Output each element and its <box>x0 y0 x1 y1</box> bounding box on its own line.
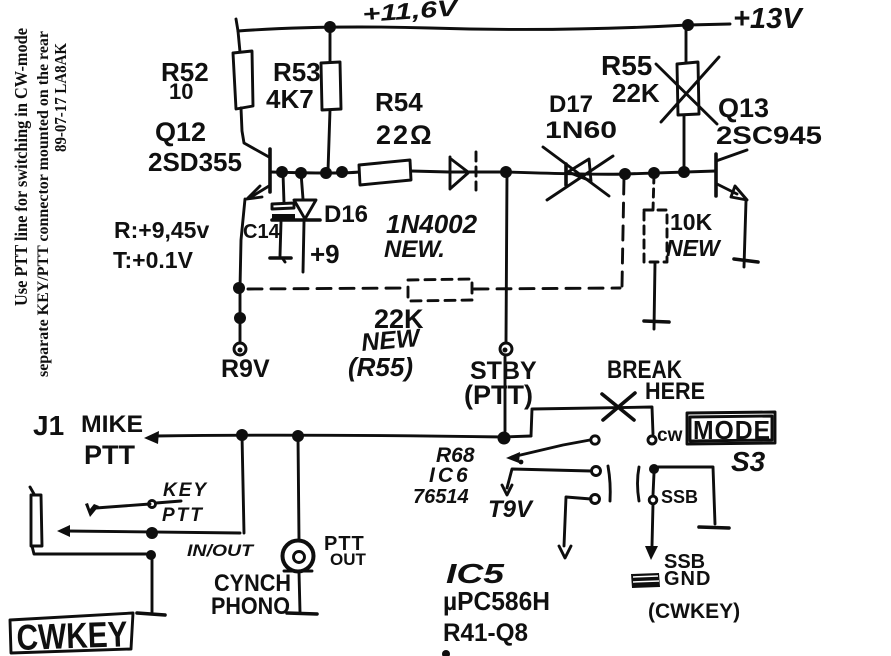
svg-text:22K: 22K <box>612 78 660 108</box>
svg-text:Use PTT line for switching in: Use PTT line for switching in CW-mode <box>11 28 31 306</box>
transistor Q12 <box>268 149 272 192</box>
svg-text:IN/OUT: IN/OUT <box>187 541 255 560</box>
svg-text:R54: R54 <box>375 87 423 117</box>
svg-text:76514: 76514 <box>413 486 469 508</box>
wire KEY line <box>96 504 150 508</box>
svg-text:+13V: +13V <box>733 3 804 35</box>
wire to right ground <box>658 467 715 524</box>
svg-text:NEW.: NEW. <box>384 236 445 263</box>
svg-text:Q12: Q12 <box>155 117 206 147</box>
arrow J1 <box>144 431 159 444</box>
svg-text:PTT: PTT <box>84 440 136 470</box>
wire contact A to arrow <box>512 440 590 457</box>
resistor 22K NEW (R55) dashed <box>408 279 472 301</box>
gnd pad SSB GND <box>631 573 660 588</box>
box MODE <box>687 412 775 444</box>
svg-text:C14: C14 <box>243 221 281 243</box>
ground CWKEY branch <box>137 613 165 615</box>
svg-text:R41-Q8: R41-Q8 <box>443 619 528 647</box>
svg-text:D16: D16 <box>324 201 368 228</box>
svg-text:T9V: T9V <box>488 496 534 523</box>
svg-text:R53: R53 <box>273 57 321 87</box>
terminal ssb <box>653 473 654 495</box>
svg-text:J1: J1 <box>33 410 64 441</box>
ground Q13 emitter <box>734 259 758 262</box>
ground C14 <box>270 256 291 260</box>
svg-text:T:+0.1V: T:+0.1V <box>113 247 194 273</box>
svg-text:MIKE: MIKE <box>81 411 143 438</box>
wire contact C down arrow <box>564 497 591 546</box>
svg-text:S3: S3 <box>731 446 766 477</box>
svg-text:10K: 10K <box>670 209 713 235</box>
diode D15 1N4002 <box>449 157 452 189</box>
wire J1 dot down to PTT line <box>242 435 244 533</box>
ground phono <box>287 613 317 614</box>
resistor R52 <box>233 51 253 109</box>
svg-text:PTT: PTT <box>162 505 204 526</box>
svg-text:CWKEY: CWKEY <box>16 613 128 656</box>
svg-text:IC5: IC5 <box>446 558 505 589</box>
box CWKEY <box>10 613 133 653</box>
wire J1 main <box>155 435 531 437</box>
ground 10K <box>644 321 669 322</box>
terminal STBY <box>500 343 512 355</box>
svg-text:89-07-17 LA8AK: 89-07-17 LA8AK <box>51 42 70 152</box>
dashed wire new R55 path <box>248 288 406 289</box>
transistor Q13 <box>714 154 718 196</box>
svg-text:R:+9,45v: R:+9,45v <box>114 217 209 243</box>
wire top rail +11.6V/+13V <box>238 24 730 31</box>
svg-text:GND: GND <box>664 568 711 590</box>
connector CYNCH PHONO <box>283 541 314 572</box>
svg-text:D17: D17 <box>549 91 593 118</box>
wire ssb down arrow <box>652 504 653 546</box>
resistor R55 crossed <box>685 26 688 63</box>
svg-text:R55: R55 <box>601 50 652 81</box>
svg-text:10: 10 <box>169 79 193 104</box>
svg-text:+9: +9 <box>310 239 340 269</box>
svg-text:MODE: MODE <box>693 415 771 445</box>
svg-text:IC6: IC6 <box>429 464 471 487</box>
node top rail / R53 <box>324 21 336 33</box>
switch S3 left contacts <box>591 436 599 444</box>
svg-text:HERE: HERE <box>645 378 705 405</box>
svg-text:separate KEY/PTT connector mou: separate KEY/PTT connector mounted on th… <box>35 31 52 377</box>
svg-text:Q13: Q13 <box>718 93 769 123</box>
resistor R53 <box>329 27 332 62</box>
svg-text:KEY: KEY <box>163 480 208 501</box>
svg-text:µPC586H: µPC586H <box>443 586 550 616</box>
svg-text:R9V: R9V <box>221 355 270 383</box>
svg-text:OUT: OUT <box>330 550 367 569</box>
svg-text:(R55): (R55) <box>348 352 413 382</box>
wire to R9V <box>239 288 242 343</box>
terminal cw <box>648 436 656 444</box>
svg-text:(CWKEY): (CWKEY) <box>648 600 740 623</box>
connector jack left <box>30 487 34 494</box>
wire contact B down to T9V <box>507 469 591 488</box>
resistor R54 <box>359 160 411 185</box>
wire STBY <box>506 173 507 342</box>
wire PTT line <box>66 531 240 533</box>
wire up to break <box>531 407 653 436</box>
svg-text:1N4002: 1N4002 <box>386 209 478 239</box>
svg-text:4K7: 4K7 <box>266 84 314 114</box>
svg-text:cw: cw <box>657 425 683 446</box>
svg-text:NEW: NEW <box>666 235 722 261</box>
node rail dots <box>276 166 288 178</box>
switch S3 right contacts <box>638 467 640 501</box>
svg-text:PHONO: PHONO <box>211 593 290 620</box>
svg-text:1N60: 1N60 <box>545 117 617 144</box>
wire phono branch <box>298 436 299 540</box>
wire rail to R52 <box>236 19 240 52</box>
svg-text:SSB: SSB <box>661 487 698 507</box>
svg-text:2SD355: 2SD355 <box>148 147 242 177</box>
resistor 10K NEW dashed <box>653 175 654 210</box>
node dashed line left <box>233 282 245 294</box>
wire R52 to Q12 base <box>241 108 269 157</box>
wire CWKEY branch <box>32 546 150 554</box>
diode D16 <box>301 173 303 199</box>
svg-text:(PTT): (PTT) <box>464 380 533 410</box>
capacitor C14 <box>283 173 284 203</box>
diode D17 crossed <box>564 164 568 185</box>
wire main rail <box>271 172 359 173</box>
svg-text:22Ω: 22Ω <box>376 120 434 150</box>
wiper bar left <box>608 466 610 501</box>
svg-text:2SC945: 2SC945 <box>716 122 822 150</box>
terminal R9V <box>234 343 246 355</box>
node top rail / R55 <box>682 19 694 31</box>
break X <box>602 393 635 420</box>
